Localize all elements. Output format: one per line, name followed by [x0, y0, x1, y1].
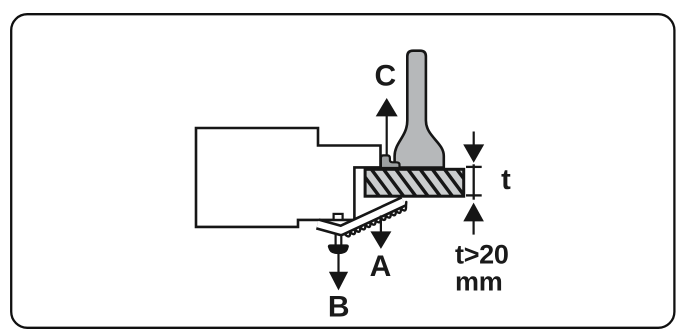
slab hatching	[359, 169, 477, 196]
release lever (bell shaped grey handle)	[395, 51, 444, 168]
release cam (small grey mound)	[381, 155, 400, 168]
svg-text:t: t	[501, 164, 511, 196]
bolt shaft	[335, 235, 337, 247]
svg-text:t>20: t>20	[455, 240, 509, 270]
dimension extent ticks (I-beam)	[473, 164, 475, 199]
arrow C	[386, 114, 388, 156]
small tab on housing bottom	[334, 214, 343, 220]
svg-text:A: A	[370, 250, 392, 283]
svg-text:mm: mm	[455, 266, 502, 296]
rack teeth	[345, 202, 406, 237]
svg-text:B: B	[328, 290, 350, 323]
motor housing outline	[196, 128, 381, 227]
rack bracket (bent bar)	[318, 202, 404, 231]
dimension down arrow	[473, 132, 475, 147]
mounting slab (hatched cross-section)	[365, 169, 464, 196]
bolt head with washer	[328, 245, 348, 254]
svg-text:C: C	[374, 60, 396, 93]
dimension up arrow	[463, 203, 484, 222]
arrow B	[337, 254, 339, 273]
arrow A	[380, 215, 382, 232]
